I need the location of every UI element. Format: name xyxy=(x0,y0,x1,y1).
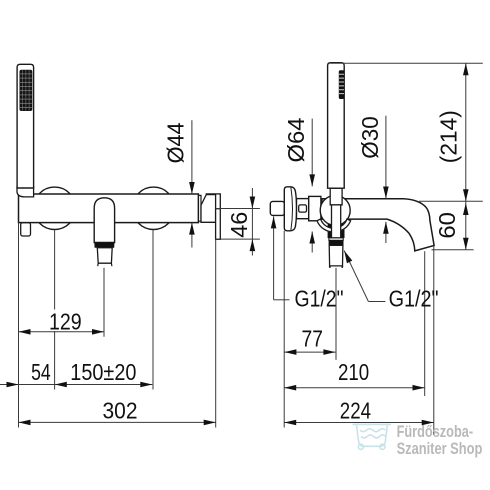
svg-text:150±20: 150±20 xyxy=(70,359,136,385)
svg-text:Ø44: Ø44 xyxy=(163,122,189,163)
ext line side wall plane xyxy=(283,231,285,428)
arrows 214 xyxy=(463,63,469,75)
handset holder cup front view xyxy=(17,187,34,197)
svg-text:302: 302 xyxy=(103,398,138,424)
hand shower grip side view xyxy=(332,205,341,238)
dim line 210 xyxy=(284,387,424,389)
escutcheon circle left xyxy=(33,187,75,229)
svg-text:G1/2": G1/2" xyxy=(295,286,344,312)
ext line front circleL centre xyxy=(54,230,56,390)
arrows 224 xyxy=(284,420,296,426)
right wall flange column (46 high) xyxy=(216,209,221,240)
hose coupling black band xyxy=(329,240,344,245)
ext lines 46 xyxy=(216,208,260,210)
ext line side 224 xyxy=(433,246,435,435)
leader D44 xyxy=(191,120,193,194)
white mask behind 129 xyxy=(46,310,85,332)
dim line 214 and 60 xyxy=(465,63,467,250)
arrows 60 xyxy=(463,203,469,215)
escutcheon circle right xyxy=(132,187,174,229)
svg-text:77: 77 xyxy=(302,326,323,352)
body rect 2 xyxy=(309,196,321,220)
dim line 224 xyxy=(284,422,434,424)
arrowheads xyxy=(7,63,469,425)
arrows D44 xyxy=(189,182,195,194)
right end neck xyxy=(199,195,202,221)
arrows 54 / 150pm20 xyxy=(7,382,19,388)
ext line 60 bottom xyxy=(432,249,474,251)
svg-text:Szaniter Shop: Szaniter Shop xyxy=(397,439,483,458)
svg-text:210: 210 xyxy=(338,359,369,385)
dim line 54 150 xyxy=(0,384,152,386)
arrows 129 xyxy=(19,329,31,335)
leader D64 xyxy=(311,119,313,187)
svg-text:(214): (214) xyxy=(436,110,462,163)
holder circle side view xyxy=(320,195,350,225)
right end nut xyxy=(206,194,220,209)
wall inlet knob xyxy=(270,201,284,215)
svg-text:224: 224 xyxy=(340,398,371,424)
right end chamfer body xyxy=(201,195,216,223)
leader G12 second xyxy=(344,251,368,302)
ext line 214 bottom xyxy=(419,200,483,202)
ext line front spout centre xyxy=(103,268,105,337)
arrows 46 xyxy=(250,197,256,209)
svg-text:46: 46 xyxy=(226,212,252,238)
dim line 46 xyxy=(251,188,253,256)
watermark tub icon xyxy=(353,424,392,449)
cradle shadow black xyxy=(328,224,345,238)
svg-text:G1/2": G1/2" xyxy=(389,286,439,312)
dim line 129 xyxy=(19,331,105,333)
svg-text:Ø64: Ø64 xyxy=(283,118,309,163)
valve body rect xyxy=(297,199,309,219)
spout front view xyxy=(94,198,114,243)
hand shower face strip side view xyxy=(339,70,344,99)
leader G12 first xyxy=(273,216,275,299)
spout aerator black band xyxy=(94,242,114,248)
wall escutcheon side (D64) xyxy=(284,187,296,231)
svg-text:129: 129 xyxy=(49,308,82,334)
svg-text:54: 54 xyxy=(31,359,51,385)
svg-text:Ø30: Ø30 xyxy=(357,116,383,159)
ext line front circleR centre xyxy=(152,230,154,390)
hose stub below bar left xyxy=(21,223,31,236)
dim line 302 xyxy=(19,421,216,423)
hose connector body xyxy=(329,245,343,268)
spout nozzle xyxy=(97,248,112,267)
cradle cup ring xyxy=(317,219,351,232)
hand shower body side view xyxy=(328,63,345,189)
ext line front left edge xyxy=(18,223,20,428)
hand shower handle front view xyxy=(17,64,33,188)
hose coupling white band xyxy=(329,238,343,240)
hand shower neck in holder side view xyxy=(330,188,342,205)
arrows 210 xyxy=(284,385,296,391)
leader D30 xyxy=(385,116,387,199)
arrows D30 xyxy=(383,187,389,199)
ext line 214 top xyxy=(330,62,483,64)
arrow G12 first xyxy=(271,216,277,228)
arrows 302 xyxy=(19,420,31,426)
arrows D64 xyxy=(309,174,315,186)
arrows 77 xyxy=(284,349,296,355)
arrow G12 second xyxy=(344,251,352,264)
ext line side 210 xyxy=(424,251,426,396)
mixer bar body xyxy=(19,194,199,223)
ext line front right edge xyxy=(215,239,217,427)
hand shower face plate front view xyxy=(20,70,33,111)
dim line 77 xyxy=(284,351,335,353)
spout side view xyxy=(322,199,434,251)
ext line side handset centre xyxy=(335,268,337,360)
svg-text:60: 60 xyxy=(434,212,460,239)
